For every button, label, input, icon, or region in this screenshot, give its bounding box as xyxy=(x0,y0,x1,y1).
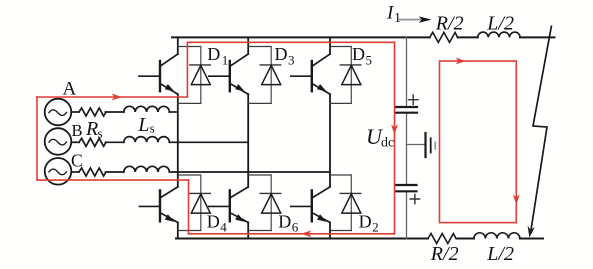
wire midpoint to ground xyxy=(407,144,426,146)
wire bottom rail after L/2 xyxy=(520,238,543,240)
wire leg2 top junction xyxy=(248,46,271,48)
diode D6 xyxy=(260,175,281,231)
wire leg1 bottom junction xyxy=(178,230,201,232)
red DC down segment xyxy=(394,42,396,234)
transistor V6 (leg2 bottom IGBT) xyxy=(209,175,248,239)
svg-text:D: D xyxy=(278,211,291,231)
resistor R/2 (top) xyxy=(430,32,458,42)
red arrow (load loop right, downward) xyxy=(513,195,520,205)
svg-text:1: 1 xyxy=(394,11,401,26)
wire C mid xyxy=(106,171,124,173)
red bottom bus segment xyxy=(189,233,395,235)
red riser at leg1 xyxy=(186,42,188,97)
wire B mid xyxy=(106,141,124,143)
wire leg2 phase junction xyxy=(248,102,271,104)
svg-text:L: L xyxy=(137,114,149,136)
svg-text:R/2: R/2 xyxy=(435,13,464,35)
svg-text:6: 6 xyxy=(292,220,299,235)
red return riser xyxy=(188,180,190,234)
capacitor C1 (upper DC-link) xyxy=(396,107,417,113)
svg-text:D: D xyxy=(352,44,365,64)
inductor Ls (phase B) xyxy=(124,137,170,143)
wire top DC+ rail xyxy=(172,36,430,38)
red load loop I1 xyxy=(440,61,517,223)
wire leg1 top junction xyxy=(178,46,201,48)
wire leg2 bottom junction xyxy=(248,230,271,232)
svg-text:dc: dc xyxy=(381,135,394,150)
red arrow (bottom, leftward) xyxy=(301,230,311,237)
svg-text:L/2: L/2 xyxy=(486,13,514,35)
svg-text:2: 2 xyxy=(372,220,379,235)
diode D3 xyxy=(260,47,281,104)
svg-text:s: s xyxy=(150,121,155,136)
inductor Ls (phase C) xyxy=(124,166,170,172)
wire leg1 bottom phase junction xyxy=(178,174,201,176)
red arrow (down, at Udc) xyxy=(391,125,398,135)
arrow I1 direction xyxy=(399,19,420,21)
polarity + (lower capacitor) xyxy=(410,194,419,203)
inductor Ls (phase A) xyxy=(124,106,170,112)
wire leg3 top junction xyxy=(330,46,351,48)
red current path: phase A segment xyxy=(37,96,187,98)
wire leg3 bottom junction xyxy=(330,230,351,232)
resistor R/2 (bottom) xyxy=(428,234,456,244)
wire bottom rail between R/2 and L/2 xyxy=(457,238,474,240)
transistor V3 (leg2 top IGBT) xyxy=(209,37,248,175)
wire A stub xyxy=(71,111,79,113)
svg-text:D: D xyxy=(359,211,372,231)
svg-text:L/2: L/2 xyxy=(486,243,514,265)
red top bus segment xyxy=(187,41,394,43)
wire A to leg1 xyxy=(169,111,178,113)
wire leg1 phase junction xyxy=(178,102,201,104)
diode D1 xyxy=(190,47,211,104)
wire top rail after R/2 to L/2 xyxy=(458,36,478,38)
wire bottom DC- rail xyxy=(176,238,428,240)
svg-text:R/2: R/2 xyxy=(430,243,459,265)
resistor Rs (phase B) xyxy=(79,138,106,146)
svg-text:4: 4 xyxy=(220,220,227,235)
svg-text:B: B xyxy=(72,121,83,140)
wire leg3 phase junction xyxy=(330,102,351,104)
resistor Rs (phase A) xyxy=(79,108,106,116)
wire A mid xyxy=(106,111,124,113)
svg-text:D: D xyxy=(275,44,288,64)
wire C to leg3 xyxy=(169,171,330,173)
red arrow (load loop top, rightward) xyxy=(456,58,466,65)
AC source C xyxy=(45,158,72,185)
inductor L/2 (top) xyxy=(478,32,520,37)
polarity + (upper capacitor) xyxy=(409,95,419,104)
AC source A xyxy=(45,99,72,126)
resistor Rs (phase C) xyxy=(79,168,106,176)
inductor L/2 (bottom) xyxy=(474,233,520,239)
svg-text:D: D xyxy=(207,44,220,64)
red return bottom segment xyxy=(37,179,189,181)
diode D4 xyxy=(190,175,211,231)
diode D2 xyxy=(340,175,361,231)
AC source B xyxy=(45,128,72,155)
svg-text:5: 5 xyxy=(366,52,373,67)
transistor V4 (leg1 bottom IGBT) xyxy=(140,175,178,239)
transistor V5 (leg3 top IGBT) xyxy=(291,37,330,175)
wire top rail after L/2 to line end xyxy=(520,36,555,38)
wire B to leg2 xyxy=(169,141,248,143)
diode D5 xyxy=(340,47,361,104)
svg-text:1: 1 xyxy=(222,52,229,67)
wire B stub xyxy=(71,141,79,143)
wire leg2 bottom phase junction xyxy=(248,174,271,176)
svg-text:3: 3 xyxy=(288,52,295,67)
ground (DC midpoint) xyxy=(424,133,426,157)
svg-text:D: D xyxy=(207,211,220,231)
red left segment xyxy=(36,97,38,180)
wire C stub xyxy=(71,171,79,173)
transistor V1 (leg1 top IGBT) xyxy=(139,37,178,175)
wire leg3 bottom phase junction xyxy=(330,174,351,176)
wire DC-link bus (vertical) xyxy=(406,37,408,107)
svg-text:R: R xyxy=(85,118,98,140)
transistor V2 (leg3 bottom IGBT) xyxy=(291,175,330,239)
capacitor C2 (lower DC-link) xyxy=(396,185,417,191)
lightning bolt (fault) xyxy=(531,26,552,232)
red arrow (phase A, rightward) xyxy=(112,94,122,101)
